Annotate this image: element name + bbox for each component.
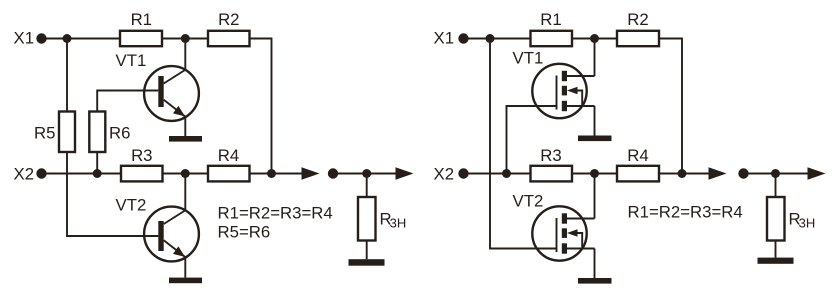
resistor R3H load (left) [358,197,376,241]
svg-text:X2: X2 [14,164,35,183]
resistor R1 (left) [120,31,162,46]
resistor R5 (left) [59,112,75,153]
svg-text:R4: R4 [218,146,239,165]
node junction X1/R5 (left) [63,34,72,43]
svg-text:X1: X1 [14,29,35,48]
resistor R4 (right) [617,166,659,182]
wire VT2 collector (left) [184,174,186,211]
terminal dot load input (right) [738,168,748,178]
svg-text:R1: R1 [540,10,561,29]
resistor R2 (right) [617,31,659,46]
node A junction R1/R2/VT1 collector (left) [181,34,190,43]
resistor R2 (left) [208,31,250,46]
svg-text:R4: R4 [627,146,648,165]
svg-text:VT1: VT1 [513,49,544,68]
svg-text:VT1: VT1 [116,51,147,70]
node junction load (left) [362,169,371,178]
wire VT1 emitter (left) [184,117,186,137]
wire R5 bottom to VT2 base (left) [67,152,158,236]
ground VT2 (left) [169,278,202,284]
wire VT1 collector (left) [184,39,186,71]
node junction R6/X2 (left) [93,169,102,178]
svg-text:R2: R2 [627,10,648,29]
svg-text:R1: R1 [131,10,152,29]
wire R2 to output node F (right) [659,39,682,174]
terminal dot X1 (right) [458,33,468,43]
terminal dot X1 (left) [36,33,46,43]
wire junction to R3H (left) [366,174,368,198]
ground VT1 (left) [169,136,202,142]
svg-text:VT2: VT2 [513,191,544,210]
node junction load (right) [771,169,780,178]
wire VT2 source (right) [594,249,596,279]
resistor R6 (left) [89,112,105,153]
svg-text:R1=R2=R3=R4: R1=R2=R3=R4 [628,203,743,222]
ground VT1 (right) [578,136,612,142]
wire load rail (right) [744,173,813,175]
node E junction R3/R4/VT2 drain (right) [590,169,599,178]
node junction X1 (right) [486,34,495,43]
terminal dot load input (left) [328,168,338,178]
transistor VT2 (left, NPN) [144,207,199,262]
wire R6 top to VT1 base (left) [97,91,158,112]
wire X1 to VT2 gate (right) [490,39,557,249]
transistor VT1 (left, NPN) [144,66,199,121]
svg-text:R6: R6 [109,123,130,142]
svg-text:R2: R2 [218,10,239,29]
node G junction VT1 gate/X2 (right) [502,169,511,178]
resistor R3H load (right) [767,197,785,241]
svg-text:3H: 3H [799,215,816,230]
svg-text:VT2: VT2 [116,195,147,214]
svg-text:R3: R3 [131,146,152,165]
terminal dot X2 (right) [458,168,468,178]
svg-text:R1=R2=R3=R4: R1=R2=R3=R4 [218,203,333,222]
resistor R1 (right) [531,31,573,46]
node C junction output (left) [267,169,276,178]
svg-text:R5: R5 [34,123,55,142]
wire junction to R5 top (left) [66,39,68,112]
resistor R3 (right) [531,166,573,182]
transistor VT2 (right, MOSFET) [532,206,594,260]
wire load rail (left) [333,173,400,175]
wire X2 to R3 (left) [42,173,122,175]
wire R3H to ground (right) [775,241,777,258]
svg-text:X1: X1 [434,29,455,48]
wire X2 to R3 (right) [464,173,531,175]
wire R4 to output arrow (right) [659,173,713,175]
node D junction R1/R2/VT1 drain (right) [590,34,599,43]
svg-text:3H: 3H [390,215,407,230]
output arrowhead (right) [709,167,727,180]
wire R3 to R4 (right) [572,173,617,175]
wire R3 to R4 (left) [163,173,209,175]
svg-text:R5=R6: R5=R6 [218,222,271,241]
wire R3H to ground (left) [366,241,368,260]
node B junction R3/R4/VT2 collector (left) [181,169,190,178]
resistor R3 (left) [121,166,163,182]
output arrowhead (left) [302,167,320,180]
wire R1 to R2 (left) [162,38,208,40]
wire VT2 emitter (left) [184,257,186,278]
terminal dot X2 (left) [36,168,46,178]
ground load (right) [758,258,794,264]
wire R2 to output node C (left) [250,39,272,174]
svg-text:X2: X2 [434,164,455,183]
load arrowhead (right) [808,167,826,180]
wire X1 to R1 (left) [42,38,121,40]
wire X1 to R1 (right) [464,38,531,40]
ground VT2 (right) [578,278,612,284]
svg-text:R3: R3 [540,146,561,165]
wire R1 to R2 (right) [572,38,617,40]
resistor R4 (left) [208,166,250,182]
node F junction output (right) [678,169,687,178]
ground load (left) [349,259,385,266]
wire R4 to output arrow (left) [250,173,307,175]
wire VT1 source (right) [594,106,596,136]
wire VT2 drain (right) [594,174,596,219]
transistor VT1 (right, MOSFET) [532,64,594,118]
wire VT1 drain (right) [594,39,596,77]
wire VT1 gate to X2 rail (right) [507,106,557,174]
load arrowhead (left) [396,167,414,180]
wire R6 bottom to X2 rail (left) [96,152,98,174]
wire junction to R3H (right) [775,174,777,198]
